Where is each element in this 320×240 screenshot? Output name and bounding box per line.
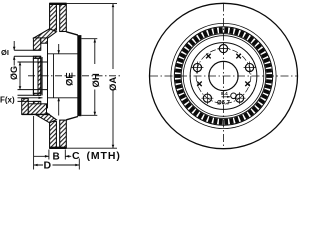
svg-text:ØH: ØH: [91, 73, 102, 87]
bolt hole edges (top, ØI): [14, 50, 41, 56]
OD bottom cap: [49, 147, 66, 149]
dim ØA line: [112, 4, 114, 149]
dim ØG: [19, 62, 21, 90]
ØA extension lines: [67, 4, 117, 149]
ØH extension ticks: [82, 39, 98, 116]
svg-text:ØI: ØI: [1, 48, 9, 57]
dim ØE line: [58, 44, 60, 116]
svg-text:ØA: ØA: [108, 77, 119, 91]
crosshair horizontal: [150, 75, 297, 77]
drum wall top: [66, 32, 78, 35]
friction inner circle: [183, 36, 264, 117]
svg-text:ØE: ØE: [65, 72, 76, 86]
small pin hole: [231, 93, 237, 99]
centerline left view: [28, 75, 120, 77]
bore edges (ØG): [18, 62, 48, 90]
ring inner edge projection lines: [48, 54, 78, 98]
dim ØH line: [94, 39, 96, 115]
hat cone (bottom): [33, 108, 56, 122]
dim D: [34, 116, 80, 170]
knurl band outer: [174, 27, 272, 125]
left friction plate (bottom): [50, 122, 57, 149]
crosshair vertical: [223, 4, 225, 149]
dim ØI: [13, 41, 15, 66]
svg-text:ØG: ØG: [9, 66, 19, 80]
hat mounting face plate: [33, 38, 40, 50]
leader F: [18, 97, 43, 99]
midband vertical line: [53, 54, 55, 98]
svg-text:D: D: [44, 160, 52, 172]
bolt hole edges (bottom): [18, 95, 41, 101]
bolt circle (dash-dot): [196, 49, 251, 104]
flange bottom edge: [22, 113, 50, 115]
outer chamfer circle: [171, 23, 276, 128]
hub pilot tube edges: [41, 57, 43, 95]
flange shoulder top: [41, 38, 48, 43]
dim B: [49, 150, 65, 160]
bore box: [33, 58, 40, 93]
hat cone (top): [33, 29, 56, 43]
right friction plate (bottom): [60, 120, 67, 148]
alignment cross marks: [197, 54, 250, 86]
OD top cap: [49, 3, 66, 5]
svg-text:B: B: [53, 152, 60, 163]
left friction plate (top): [50, 4, 57, 31]
pin hole leader: [222, 96, 231, 98]
lower flange foot: [28, 104, 46, 115]
knurl band inner: [181, 34, 266, 119]
hat circle: [190, 43, 257, 110]
drum back face bar: [78, 36, 81, 116]
right friction plate (top): [60, 4, 67, 32]
lower flange bar: [22, 99, 29, 115]
svg-text:Ø6.7: Ø6.7: [217, 101, 231, 107]
center bore: [209, 61, 238, 90]
svg-text:C (MTH): C (MTH): [72, 150, 121, 162]
outer edge: [150, 3, 298, 148]
svg-text:8.4: 8.4: [221, 91, 228, 97]
bolt holes: [191, 43, 255, 105]
drum wall bottom: [66, 117, 78, 120]
svg-text:F(x): F(x): [0, 96, 15, 105]
knurl ticks: [175, 27, 272, 124]
